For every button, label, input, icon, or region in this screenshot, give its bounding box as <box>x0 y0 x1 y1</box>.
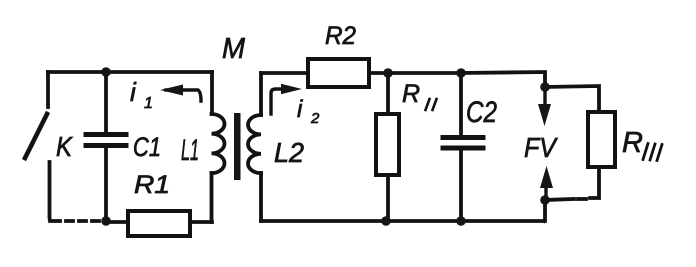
svg-text:L1: L1 <box>181 134 199 167</box>
node C top of RII <box>383 68 393 78</box>
svg-text:L2: L2 <box>274 137 304 168</box>
inductor L2 <box>248 73 261 221</box>
inductor L1 <box>212 72 225 222</box>
svg-text:R2: R2 <box>325 22 356 50</box>
node F bottom of C2 <box>456 216 466 226</box>
svg-text:2: 2 <box>310 110 320 127</box>
label i2 <box>297 96 320 127</box>
capacitor C2 <box>443 73 483 221</box>
node E bottom of RII <box>381 216 391 226</box>
label i1 <box>130 77 153 112</box>
resistor R2 <box>308 59 369 87</box>
resistor RIII <box>588 112 615 167</box>
node A top of C1 <box>101 67 111 77</box>
wire FV top to RIII <box>545 86 599 112</box>
current arrow i1 <box>160 85 201 102</box>
wire L2 to R2 <box>261 71 308 75</box>
svg-text:1: 1 <box>144 95 153 112</box>
wire left upper <box>46 72 50 107</box>
svg-text:R: R <box>402 80 420 108</box>
svg-text:M: M <box>222 33 246 65</box>
node H FV bottom <box>540 195 550 205</box>
wire RIII bottom to FV bottom <box>545 167 599 200</box>
wire dashed bottom-left <box>53 219 104 223</box>
wire bottom rail secondary <box>261 219 545 223</box>
transformer core M <box>234 113 241 180</box>
resistor R1 <box>106 211 212 236</box>
svg-text:K: K <box>56 131 73 162</box>
node B bottom of C1 <box>101 216 111 226</box>
resistor RII <box>376 73 399 221</box>
wire top rail primary <box>48 70 212 74</box>
node D top of C2 <box>456 68 466 78</box>
switch K <box>25 114 50 221</box>
svg-text:FV: FV <box>524 132 558 163</box>
spark gap FV <box>538 89 553 198</box>
wire node C to node D <box>388 71 461 75</box>
svg-text:i: i <box>297 96 303 123</box>
svg-text:C1: C1 <box>133 132 161 162</box>
svg-text:R: R <box>622 127 643 159</box>
label RIII <box>622 127 662 161</box>
label RII <box>402 80 437 110</box>
node G FV top <box>540 82 550 92</box>
svg-text:C2: C2 <box>466 96 497 129</box>
svg-text:R1: R1 <box>134 171 170 199</box>
wire R2 to node C <box>369 71 388 75</box>
wire node D to FV top <box>461 72 545 87</box>
current arrow i2 <box>271 84 302 114</box>
capacitor C1 <box>86 72 126 221</box>
wire FV bottom to rail <box>544 200 545 221</box>
